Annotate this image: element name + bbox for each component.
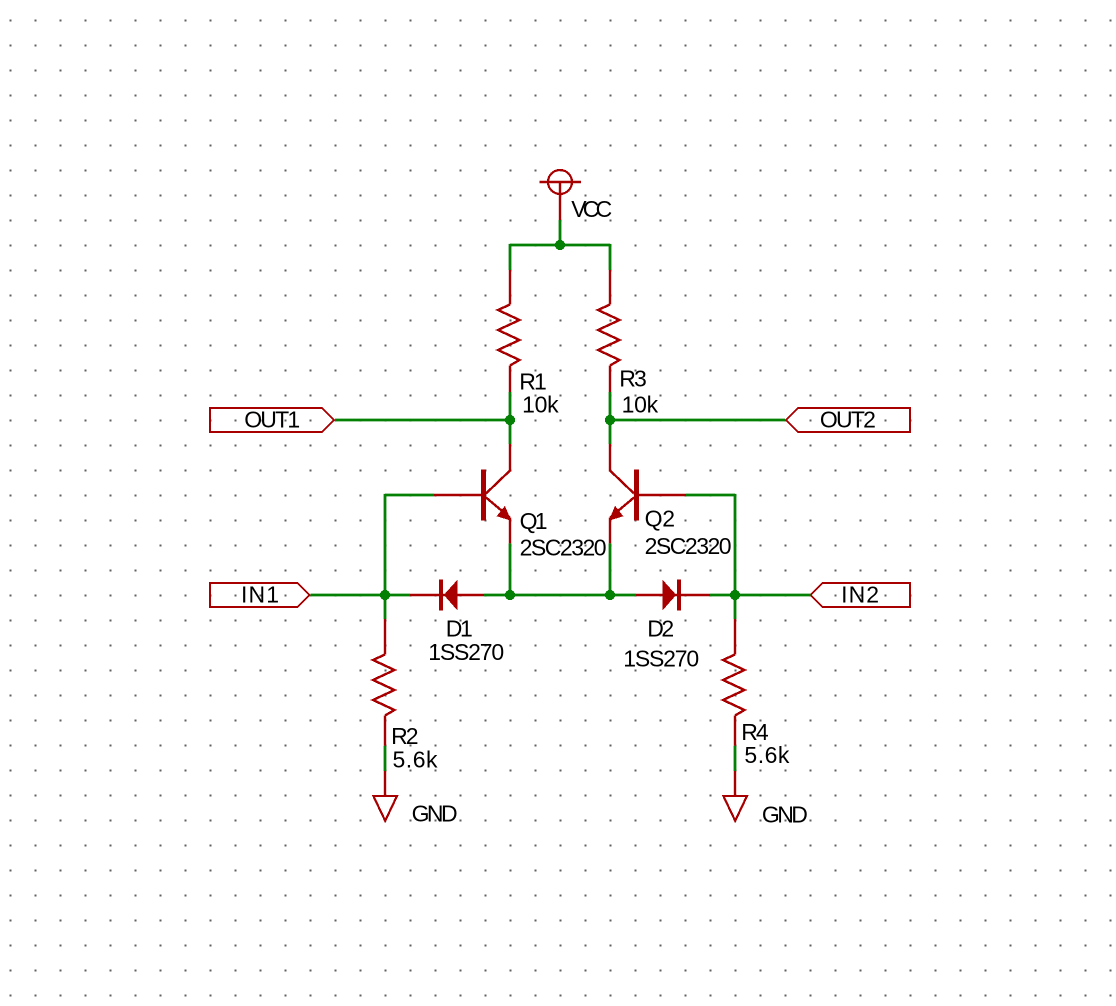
Q1 base pin bbox=[434, 494, 481, 496]
wire Q1 base to IN1 node bbox=[385, 494, 434, 497]
resistor R2 bbox=[373, 619, 395, 746]
wire VCC to rail bbox=[559, 220, 562, 245]
wire OUT2 to node bbox=[610, 419, 785, 422]
ground pin left bbox=[384, 771, 386, 796]
D2 triangle bbox=[663, 580, 677, 610]
svg-text:R2: R2 bbox=[391, 723, 419, 749]
junction IN1 node bbox=[380, 590, 390, 600]
Q1 base bar bbox=[481, 470, 486, 521]
diode D1 bbox=[410, 579, 484, 610]
svg-text:2SC2320: 2SC2320 bbox=[645, 533, 732, 559]
svg-text:Q2: Q2 bbox=[645, 506, 676, 532]
wire rail to R3 bbox=[609, 244, 612, 270]
Q2 base pin bbox=[639, 494, 686, 496]
global label IN2 bbox=[811, 583, 911, 607]
Q1 emitter pin bbox=[509, 518, 511, 544]
D2 cathode bar bbox=[677, 579, 681, 610]
junction at VCC rail bbox=[555, 240, 565, 250]
ground symbol left bbox=[373, 796, 397, 821]
wire base node down right bbox=[734, 494, 737, 595]
svg-text:D1: D1 bbox=[446, 616, 473, 642]
svg-text:10k: 10k bbox=[522, 392, 559, 418]
junction Q1 emitter node bbox=[505, 590, 515, 600]
svg-text:GND: GND bbox=[762, 801, 808, 827]
D1 anode pin bbox=[410, 594, 484, 597]
Q1 collector pin bbox=[509, 444, 511, 472]
Q2 collector diagonal bbox=[610, 471, 634, 494]
transistor Q2 bbox=[610, 444, 686, 543]
svg-text:IN1: IN1 bbox=[241, 582, 279, 608]
transistor Q1 bbox=[434, 444, 510, 543]
D2 anode pin bbox=[636, 594, 710, 597]
svg-text:1SS270: 1SS270 bbox=[428, 639, 504, 665]
svg-text:VCC: VCC bbox=[571, 196, 612, 222]
Q1 emitter diagonal bbox=[486, 498, 510, 518]
svg-text:2SC2320: 2SC2320 bbox=[520, 535, 607, 561]
wire IN1 node down to R2 bbox=[384, 595, 387, 619]
resistor R4 bbox=[723, 619, 745, 746]
wire emitters rail bbox=[484, 594, 636, 597]
Q1 collector diagonal bbox=[486, 471, 510, 494]
junction OUT2 node bbox=[605, 415, 615, 425]
svg-text:5.6k: 5.6k bbox=[744, 742, 790, 768]
wire R2 to GND bbox=[384, 746, 387, 771]
svg-text:D2: D2 bbox=[647, 616, 674, 642]
svg-text:10k: 10k bbox=[622, 391, 659, 417]
svg-text:1SS270: 1SS270 bbox=[623, 646, 699, 672]
global label OUT1 bbox=[210, 408, 334, 432]
wire rail to R1 bbox=[509, 244, 512, 270]
wire IN2 to node bbox=[710, 594, 811, 597]
global label OUT2 bbox=[786, 408, 910, 432]
supply symbol VCC bbox=[540, 170, 582, 220]
ground pin right bbox=[734, 771, 736, 796]
wire IN2 node down to R4 bbox=[734, 595, 737, 619]
svg-text:GND: GND bbox=[412, 801, 458, 827]
wire top rail bbox=[510, 244, 610, 247]
diode D2 bbox=[636, 579, 710, 610]
wire base node down bbox=[384, 494, 387, 595]
Q2 emitter diagonal bbox=[610, 498, 634, 518]
D1 triangle bbox=[444, 580, 458, 610]
svg-text:OUT2: OUT2 bbox=[820, 407, 876, 433]
svg-text:5.6k: 5.6k bbox=[393, 746, 439, 772]
Q2 emitter pin bbox=[609, 518, 611, 544]
wire Q2 base to IN2 node bbox=[686, 494, 735, 497]
wire Q2 emitter down bbox=[609, 543, 612, 595]
svg-text:Q1: Q1 bbox=[520, 508, 548, 534]
Q2 emitter arrow bbox=[610, 507, 623, 520]
wire OUT1 to node bbox=[335, 419, 510, 422]
junction Q2 emitter node bbox=[605, 590, 615, 600]
svg-text:IN2: IN2 bbox=[841, 582, 879, 608]
wire R4 to GND bbox=[734, 746, 737, 771]
Q2 base bar bbox=[634, 470, 639, 521]
junction OUT1 node bbox=[505, 415, 515, 425]
Q1 emitter arrow bbox=[498, 507, 511, 520]
wire IN1 to node bbox=[311, 594, 411, 597]
D1 cathode bar bbox=[439, 579, 443, 610]
ground symbol right bbox=[723, 796, 747, 821]
global label IN1 bbox=[210, 583, 310, 607]
wire R1 to collector node bbox=[509, 392, 512, 444]
resistor R3 bbox=[598, 270, 620, 392]
resistor R1 bbox=[498, 270, 520, 392]
svg-text:R3: R3 bbox=[619, 366, 647, 392]
wire Q1 emitter down bbox=[509, 543, 512, 595]
Q2 collector pin bbox=[609, 444, 611, 472]
junction IN2 node bbox=[730, 590, 740, 600]
svg-text:OUT1: OUT1 bbox=[244, 407, 300, 433]
wire R3 to collector node bbox=[609, 392, 612, 444]
